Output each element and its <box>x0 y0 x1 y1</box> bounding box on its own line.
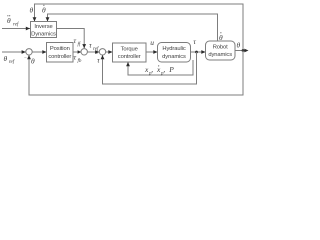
arrowhead theta-dot into inverse dynamics top <box>46 17 50 21</box>
svg-text:ref: ref <box>13 23 19 28</box>
wire theta output <box>235 50 247 52</box>
wire S3 to torque controller <box>106 51 113 53</box>
junction dot tau measurement <box>195 51 198 54</box>
svg-text:u: u <box>150 38 154 47</box>
arrowhead xp states into torque controller bottom <box>126 62 130 66</box>
arrowhead into position controller <box>42 50 46 54</box>
block hydraulic dynamics <box>158 43 191 63</box>
block inverse dynamics <box>31 22 57 38</box>
svg-text:τ: τ <box>74 53 77 62</box>
svg-text:τ: τ <box>89 41 92 50</box>
svg-text:τ: τ <box>74 36 77 45</box>
svg-text:Hydraulic: Hydraulic <box>162 46 185 52</box>
wire theta feedback bottom rail <box>29 51 243 96</box>
svg-text:θ: θ <box>30 6 34 15</box>
svg-text:τ: τ <box>193 37 196 46</box>
wire S1 to position controller <box>32 51 46 53</box>
arrowhead u into hydraulic dynamics <box>153 50 157 54</box>
wire u torque controller to hydraulic dynamics <box>146 51 158 53</box>
svg-text:θ: θ <box>237 41 241 50</box>
svg-text:,: , <box>151 65 153 74</box>
summer S1 position error <box>26 49 32 55</box>
wire theta-ddot-ref input <box>2 28 31 30</box>
svg-text:dynamics: dynamics <box>208 52 232 58</box>
arrowhead tau-ref into S3 <box>95 50 99 54</box>
arrowhead theta-ddot-ref into inverse dynamics <box>26 27 30 31</box>
arrowhead tau feedback into S3 bottom <box>101 55 105 59</box>
wire tau feedback loop <box>103 52 197 84</box>
svg-text:θ: θ <box>31 57 35 66</box>
svg-text:Robot: Robot <box>213 44 228 50</box>
block position controller <box>47 43 74 63</box>
wire xp states feedback <box>128 60 193 75</box>
arrowhead theta into inverse dynamics top <box>33 17 37 21</box>
svg-text:dynamics: dynamics <box>162 54 186 60</box>
svg-text:θ: θ <box>42 6 46 15</box>
svg-text:−: − <box>95 53 98 58</box>
wire tau-ref S2 to S3 <box>87 51 99 53</box>
svg-text:θ: θ <box>7 16 11 25</box>
summer S3 torque error <box>99 49 105 55</box>
wire theta-dot rail <box>48 14 218 41</box>
junction dot theta output <box>242 49 245 52</box>
wire tau hydraulic to robot dynamics <box>191 51 206 53</box>
arrowhead theta output <box>244 49 248 53</box>
svg-text:ref: ref <box>93 47 99 52</box>
block torque controller <box>113 43 147 62</box>
svg-text:−: − <box>24 56 27 61</box>
summer S2 tau-ff plus tau-fb <box>81 49 87 55</box>
svg-text:controller: controller <box>48 54 71 60</box>
arrowhead theta feedback into S1 bottom <box>27 55 31 59</box>
svg-text:ref: ref <box>9 60 15 65</box>
block robot dynamics <box>206 41 236 60</box>
arrowhead theta-ref into summer S1 <box>22 50 26 54</box>
svg-text:controller: controller <box>118 54 141 60</box>
arrowhead tau-fb into S2 <box>78 50 81 53</box>
svg-text:θ: θ <box>4 54 8 63</box>
svg-text:Position: Position <box>50 46 70 52</box>
wire theta-ref input <box>2 51 26 53</box>
arrowhead into torque controller <box>108 50 112 54</box>
svg-text:Dynamics: Dynamics <box>31 32 56 38</box>
svg-text:,: , <box>163 65 165 74</box>
svg-text:P: P <box>168 65 174 74</box>
wire tau-fb to summer S2 <box>73 51 81 53</box>
svg-text:ff: ff <box>78 43 81 48</box>
svg-text:Torque: Torque <box>121 46 138 52</box>
svg-text:Inverse: Inverse <box>34 24 52 30</box>
wire tau-ff feedforward <box>57 29 85 49</box>
arrowhead tau-ff into summer S2 <box>82 44 86 48</box>
svg-text:fb: fb <box>78 59 82 64</box>
wire top theta rail <box>35 4 244 51</box>
arrowhead tau into robot dynamics <box>201 50 205 54</box>
